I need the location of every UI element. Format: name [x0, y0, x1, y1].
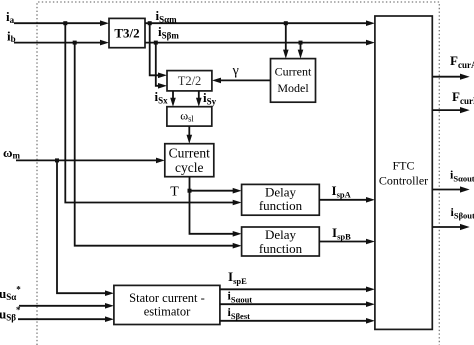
svg-text:Model: Model: [277, 81, 309, 95]
svg-text:ia: ia: [6, 9, 15, 25]
svg-text:Current: Current: [275, 65, 312, 79]
wire branch i_sbeta_m to T2/2 input 2: [156, 43, 167, 89]
block Current Model: [271, 59, 316, 103]
junction on omega_m line: [55, 158, 59, 162]
block T2/2: [167, 71, 212, 91]
svg-text:iSy: iSy: [203, 90, 217, 107]
junction on i_b line: [73, 41, 77, 45]
wire i_sbeta_m from T3/2 to FTC: [145, 40, 375, 46]
svg-text:uSα*: uSα*: [0, 285, 21, 303]
block omega_sl: [167, 107, 212, 126]
svg-text:γ: γ: [232, 64, 239, 79]
svg-text:T2/2: T2/2: [178, 74, 202, 88]
svg-text:Current: Current: [169, 145, 210, 160]
block T3/2: [109, 18, 145, 47]
block Stator current estimator: [114, 285, 220, 324]
junction on i_sbeta_m at Current Model branch: [299, 41, 303, 45]
junction on i_salpha_m at Current Model branch: [284, 21, 288, 25]
wire i_b lead-in: [14, 40, 109, 46]
block Delay function A: [242, 184, 320, 215]
wire gamma from Current Model to T2/2: [212, 78, 271, 84]
wire u_salpha lead-in: [19, 303, 114, 309]
wire i_salpha_m from T3/2 to FTC: [145, 20, 375, 26]
wire F_curB output: [432, 107, 469, 113]
svg-text:FcurB: FcurB: [452, 89, 474, 106]
svg-text:T3/2: T3/2: [114, 26, 139, 41]
wire I_spA from Delay function A to FTC: [319, 197, 375, 203]
block FTC Controller: [375, 16, 432, 329]
wire T from Current cycle to Delay function B: [190, 177, 242, 237]
svg-text:ωm: ωm: [3, 145, 21, 161]
wire i_a lead-in: [14, 20, 109, 26]
wire branch i_salpha_m to T2/2 input 1: [150, 23, 167, 78]
wire omega_sl to Current cycle: [187, 126, 193, 144]
svg-text:FTC: FTC: [392, 159, 414, 173]
svg-text:IspB: IspB: [332, 225, 351, 242]
junction on i_salpha_m at T2/2 branch: [148, 21, 152, 25]
wire I_spE from stator estimator to FTC: [220, 287, 375, 293]
junction on i_a line: [63, 21, 67, 25]
block Current cycle: [165, 144, 214, 177]
wire branch i_a down to Delay function A: [65, 23, 241, 205]
wire i_sx from T2/2 to omega_sl: [170, 91, 176, 107]
svg-text:estimator: estimator: [144, 305, 191, 319]
junction on T wire: [188, 189, 192, 193]
wire i_salpha_est from stator estimator to FTC: [220, 301, 375, 307]
wire branch i_sbeta_m down to Current Model: [298, 43, 304, 59]
svg-text:function: function: [259, 241, 303, 256]
svg-text:Stator current -: Stator current -: [129, 291, 205, 305]
svg-text:iSβm: iSβm: [158, 24, 179, 41]
svg-text:iSαm: iSαm: [156, 8, 178, 25]
svg-text:iSαout: iSαout: [450, 168, 474, 184]
svg-text:FcurA.: FcurA.: [450, 53, 474, 70]
svg-text:iSx: iSx: [155, 89, 169, 106]
wire branch i_salpha_m down to Current Model: [283, 23, 289, 58]
wire branch i_b down to Delay function B: [75, 43, 242, 249]
wire F_curA output: [432, 74, 469, 80]
wire branch T to Delay function A: [190, 188, 242, 194]
block Delay function B: [242, 227, 320, 256]
svg-text:T: T: [170, 185, 179, 200]
junction on i_sbeta_m at T2/2 branch: [154, 41, 158, 45]
wire i_sbeta_out output: [432, 224, 469, 230]
wire I_spB from Delay function B to FTC: [319, 239, 375, 245]
wire i_sy from T2/2 to omega_sl: [196, 91, 202, 107]
svg-text:iSβout: iSβout: [451, 205, 474, 221]
svg-text:cycle: cycle: [175, 160, 203, 175]
svg-text:Controller: Controller: [379, 173, 428, 187]
svg-text:function: function: [259, 198, 303, 213]
svg-text:IspA: IspA: [332, 183, 352, 200]
svg-text:IspE: IspE: [228, 269, 247, 286]
svg-text:ib: ib: [7, 28, 16, 44]
svg-text:iSαout: iSαout: [228, 289, 253, 305]
svg-text:iSβest: iSβest: [228, 305, 251, 321]
wire i_sbeta_est from stator estimator to FTC: [220, 318, 375, 324]
svg-text:uSβ*: uSβ*: [0, 305, 21, 323]
wire i_salpha_out output: [432, 186, 469, 192]
wire branch omega_m down to stator estimator: [57, 160, 114, 296]
wire omega_m lead-in to Current cycle: [16, 158, 165, 164]
wire u_sbeta lead-in: [18, 316, 114, 322]
